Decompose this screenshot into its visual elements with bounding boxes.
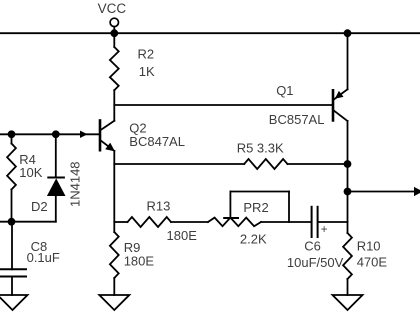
svg-text:10K: 10K	[19, 165, 42, 180]
ground at C8	[0, 295, 28, 310]
arrow on Q2 base wire	[80, 131, 88, 138]
potentiometer PR2	[208, 192, 289, 227]
svg-text:PR2: PR2	[243, 200, 268, 215]
svg-text:180E: 180E	[124, 253, 155, 268]
svg-text:470E: 470E	[357, 254, 388, 269]
wire VCC rail	[0, 32, 420, 34]
transistor Q2	[100, 121, 115, 152]
junction base wire / R4	[9, 131, 15, 137]
svg-text:C6: C6	[304, 238, 321, 253]
junction C8 / R4 / wire	[9, 219, 15, 225]
wire Q1 collector down	[347, 121, 349, 233]
svg-text:VCC: VCC	[98, 1, 127, 16]
svg-text:0.1uF: 0.1uF	[27, 250, 60, 265]
wire PR2 to C6	[261, 221, 311, 223]
resistor R2	[110, 33, 119, 121]
wire R13 to PR2	[171, 221, 208, 223]
ground at R10	[333, 295, 363, 310]
diode D2	[47, 134, 66, 221]
wire Q2 emitter down	[113, 151, 115, 232]
svg-text:R2: R2	[138, 47, 155, 62]
svg-text:BC857AL: BC857AL	[269, 112, 325, 127]
svg-text:D2: D2	[31, 199, 48, 214]
svg-text:2.2K: 2.2K	[240, 232, 267, 247]
wire output	[348, 191, 416, 193]
svg-text:Q1: Q1	[276, 83, 293, 98]
junction on VCC rail at R2	[111, 30, 117, 36]
junction on VCC rail at Q1 emitter	[345, 30, 351, 36]
svg-text:1K: 1K	[139, 64, 155, 79]
wire R5 to output node	[288, 163, 348, 165]
resistor R9	[110, 232, 119, 295]
capacitor C6	[312, 207, 348, 237]
wire emitter to R13	[114, 221, 127, 223]
wire Q2 base	[0, 133, 99, 135]
wire emitter to R5	[114, 163, 244, 165]
wire bottom-left to C8	[0, 221, 56, 223]
node VCC terminal	[110, 18, 118, 33]
svg-text:180E: 180E	[167, 228, 198, 243]
svg-text:R5 3.3K: R5 3.3K	[237, 140, 284, 155]
svg-text:+: +	[321, 224, 328, 236]
ground at R9	[99, 295, 129, 310]
resistor R5	[244, 159, 287, 169]
junction base wire / D2	[53, 131, 59, 137]
junction output node	[345, 189, 351, 195]
resistor R10	[343, 233, 352, 295]
svg-text:10uF/50V: 10uF/50V	[287, 255, 344, 270]
capacitor C8	[0, 222, 26, 295]
wire Q1 emitter to VCC rail	[347, 33, 349, 89]
transistor Q1	[333, 89, 348, 121]
svg-text:R13: R13	[147, 198, 171, 213]
resistor R4	[7, 134, 16, 221]
arrow output	[414, 187, 420, 196]
resistor R13	[128, 217, 172, 227]
svg-text:BC847AL: BC847AL	[129, 134, 185, 149]
svg-text:R10: R10	[357, 238, 381, 253]
svg-text:1N4148: 1N4148	[68, 161, 83, 207]
wire Q2 collector to Q1 base	[114, 104, 331, 106]
junction R5 / collector line	[345, 161, 351, 167]
